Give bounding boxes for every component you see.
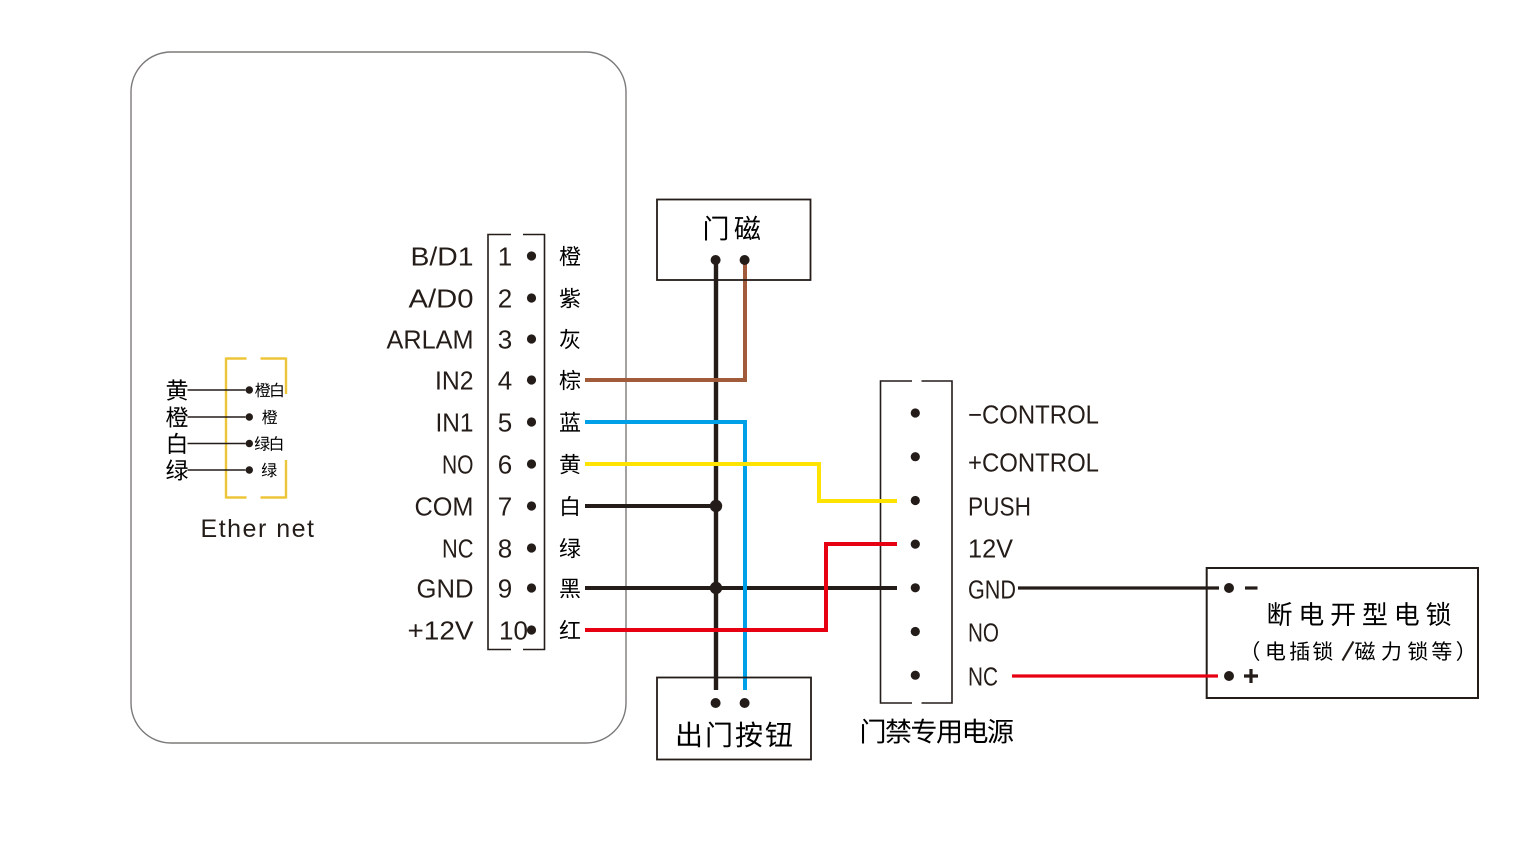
svg-text:+12V: +12V: [408, 616, 475, 646]
svg-text:10: 10: [499, 616, 528, 646]
wire red power NC to lock plus: [1012, 674, 1218, 677]
door sensor box: [657, 200, 811, 281]
power pin label PUSH: [968, 492, 1031, 522]
svg-text:2: 2: [498, 284, 512, 314]
wire blue pin5 to exit button: [585, 422, 745, 690]
lock minus sign: [1245, 586, 1258, 589]
svg-text:NO: NO: [968, 618, 999, 648]
svg-text:A/D0: A/D0: [409, 284, 474, 314]
exit button terminal dots: [711, 698, 750, 708]
terminal pin 4 wire color label 棕: [560, 370, 581, 390]
power pin dot 4: [911, 540, 920, 549]
Ethernet lead wire 3: [188, 443, 246, 445]
terminal pin 2 dot: [527, 293, 536, 302]
Ethernet connector bracket: [226, 358, 286, 499]
door sensor terminal dots: [711, 255, 750, 265]
terminal pin 9 name GND: [417, 574, 474, 604]
terminal pin 6 dot: [527, 459, 536, 468]
terminal pin 2 number: [498, 284, 512, 314]
terminal pin 4 dot: [527, 375, 536, 384]
wire black power GND to lock minus: [1018, 586, 1219, 589]
terminal pin 4 number: [498, 366, 512, 396]
terminal pin 10 name +12V: [408, 616, 475, 646]
terminal pin 8 number: [498, 534, 512, 564]
terminal pin 10 number: [499, 616, 528, 646]
terminal pin 7 number: [498, 492, 512, 522]
svg-text:−CONTROL: −CONTROL: [968, 400, 1099, 430]
Ethernet pin label 橙: [262, 410, 277, 425]
lock plus sign: [1244, 669, 1258, 683]
terminal pin 8 dot: [527, 543, 536, 552]
svg-text:7: 7: [498, 492, 512, 522]
lock subtitle （电插锁/磁力锁等）: [1254, 641, 1462, 661]
lock plus terminal dot: [1224, 671, 1234, 681]
terminal pin 7 dot: [527, 501, 536, 510]
terminal pin 8 name NC: [442, 534, 474, 564]
Ethernet pin dot 2: [246, 413, 253, 420]
Ethernet lead wire 2: [188, 416, 246, 418]
svg-text:3: 3: [498, 325, 512, 355]
power pin dot 2: [911, 452, 920, 461]
terminal pin 6 name NO: [442, 450, 474, 480]
power pin dot 5: [911, 583, 920, 592]
terminal pin 1 name B/D1: [411, 242, 474, 272]
electric lock box: [1207, 568, 1478, 698]
terminal pin 7 name COM: [415, 492, 474, 522]
lock minus terminal dot: [1224, 583, 1234, 593]
svg-text:COM: COM: [415, 492, 474, 522]
exit button box: [657, 678, 811, 760]
svg-text:GND: GND: [968, 575, 1016, 605]
svg-text:IN2: IN2: [435, 366, 474, 396]
Ethernet lead wire 4: [188, 469, 246, 471]
power pin label +CONTROL: [968, 448, 1099, 478]
door sensor label 门磁: [705, 216, 760, 241]
terminal pin 9 dot: [527, 583, 536, 592]
svg-text:NC: NC: [442, 534, 474, 564]
terminal pin 5 number: [498, 408, 512, 438]
svg-text:4: 4: [498, 366, 512, 396]
terminal pin 5 dot: [527, 417, 536, 426]
Ethernet pin dot 3: [246, 440, 253, 447]
svg-text:ARLAM: ARLAM: [387, 325, 474, 355]
power pin dot 7: [911, 671, 920, 680]
terminal pin 10 wire color label 红: [560, 620, 580, 639]
terminal pin 8 wire color label 绿: [560, 538, 581, 558]
terminal pin 3 dot: [527, 334, 536, 343]
terminal pin 3 name ARLAM: [387, 325, 474, 355]
power pin label GND: [968, 575, 1016, 605]
power supply bracket: [881, 381, 953, 703]
Ethernet pin dot 1: [246, 386, 253, 393]
terminal pin 6 number: [498, 450, 512, 480]
power supply caption 门禁专用电源: [862, 719, 1013, 744]
terminal pin 7 wire color label 白: [562, 496, 578, 516]
label Ether net: [201, 515, 316, 543]
Ethernet pin dot 4: [246, 466, 253, 473]
svg-text:NC: NC: [968, 662, 998, 692]
Ethernet pin label 绿白: [255, 436, 282, 451]
terminal pin 5 wire color label 蓝: [560, 412, 580, 432]
terminal pin 5 name IN1: [436, 408, 474, 438]
svg-text:6: 6: [498, 450, 512, 480]
Ethernet wire label 黄: [167, 379, 188, 400]
terminal pin 10 dot: [527, 625, 536, 634]
terminal pin 2 wire color label 紫: [560, 288, 580, 308]
Ethernet pin label 绿: [262, 463, 277, 478]
terminal pin 9 number: [498, 574, 512, 604]
lock title 断电开型电锁: [1269, 602, 1451, 626]
svg-text:1: 1: [498, 242, 512, 272]
terminal pin 1 dot: [527, 251, 536, 260]
power pin label NC: [968, 662, 998, 692]
junction dot COM: [710, 500, 722, 512]
wire black pin9 GND to power supply: [585, 586, 897, 590]
Ethernet lead wire 1: [188, 389, 246, 391]
wire white pin7 COM junction: [585, 504, 716, 508]
svg-text:IN1: IN1: [436, 408, 474, 438]
svg-text:Ether net: Ether net: [201, 515, 316, 543]
wire yellow pin6 NO to PUSH: [585, 464, 897, 501]
wire black door-sensor to exit-button: [714, 262, 718, 690]
svg-text:NO: NO: [442, 450, 474, 480]
terminal pin 9 wire color label 黑: [560, 579, 580, 598]
access controller outline: [131, 52, 626, 743]
terminal pin 4 name IN2: [435, 366, 474, 396]
terminal pin 1 wire color label 橙: [560, 246, 581, 266]
svg-text:+CONTROL: +CONTROL: [968, 448, 1099, 478]
power pin dot 1: [911, 408, 920, 417]
terminal pin 6 wire color label 黄: [560, 454, 580, 474]
wire brown pin4 to door sensor: [585, 263, 745, 380]
power pin dot 6: [911, 627, 920, 636]
svg-text:12V: 12V: [968, 534, 1014, 564]
junction dot GND: [710, 582, 722, 594]
Ethernet wire label 橙: [166, 406, 188, 427]
terminal pin 2 name A/D0: [409, 284, 474, 314]
Ethernet pin label 橙白: [255, 383, 283, 398]
terminal block bracket: [488, 235, 545, 650]
power pin label 12V: [968, 534, 1014, 564]
svg-text:PUSH: PUSH: [968, 492, 1031, 522]
Ethernet wire label 绿: [166, 459, 188, 480]
svg-text:5: 5: [498, 408, 512, 438]
terminal pin 1 number: [498, 242, 512, 272]
svg-text:9: 9: [498, 574, 512, 604]
svg-text:GND: GND: [417, 574, 474, 604]
svg-text:8: 8: [498, 534, 512, 564]
svg-text:B/D1: B/D1: [411, 242, 474, 272]
exit button label 出门按钮: [678, 721, 792, 747]
terminal pin 3 wire color label 灰: [560, 329, 580, 349]
power pin label NO: [968, 618, 999, 648]
power pin dot 3: [911, 496, 920, 505]
terminal pin 3 number: [498, 325, 512, 355]
Ethernet wire label 白: [169, 433, 185, 454]
power pin label −CONTROL: [968, 400, 1099, 430]
wire red pin10 to power 12V: [585, 544, 897, 630]
